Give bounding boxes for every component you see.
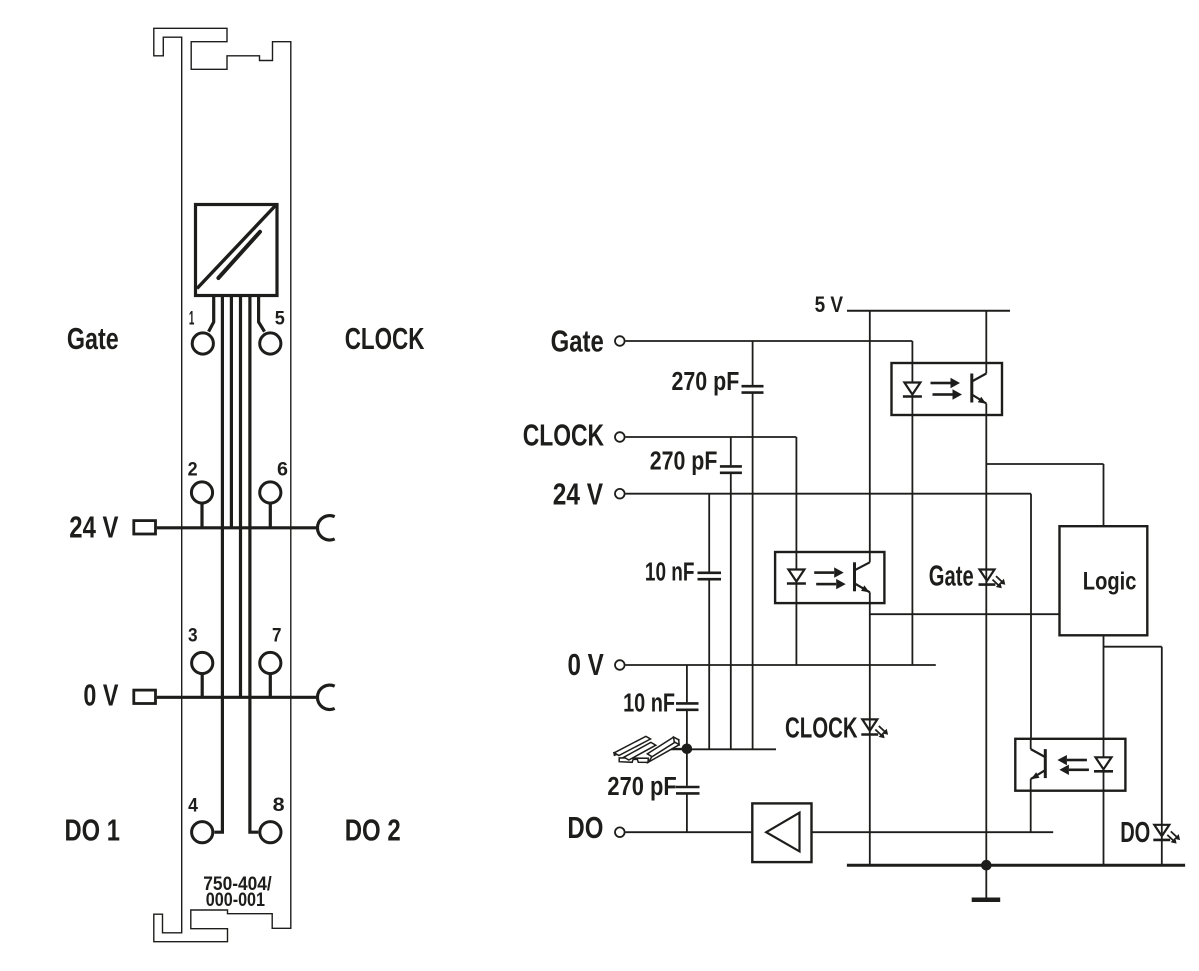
opto U1 transistor [970,374,973,403]
capacitor C1 270pF line [752,341,754,385]
LED indicator Gate [979,570,1006,589]
svg-text:270 pF: 270 pF [672,368,740,396]
0V terminal box [134,690,156,703]
LED indicator DO [1153,825,1180,844]
wire 24V [626,493,1032,495]
5V rail [847,310,1010,312]
node rail junction [682,744,693,755]
ground stub [985,865,987,898]
capacitor C3 bars [698,571,722,574]
amplifier block [752,803,811,862]
0V input terminal [615,660,625,670]
contact 4 circle [192,822,213,843]
power converter square U10 [196,205,278,296]
wire DO to amplifier [626,831,753,833]
Gate input terminal [615,336,625,346]
LED indicator CLOCK [861,719,888,738]
contact 8 circle [260,822,281,843]
wire emitter branch to logic top [986,463,1103,465]
svg-text:Gate: Gate [551,323,604,358]
wire rail symbol to node [664,748,683,750]
converter diagonal [197,206,276,289]
capacitor C4 10nF line [686,665,688,702]
DO input terminal [615,827,625,837]
svg-text:CLOCK: CLOCK [345,321,425,356]
wire Gate to opto U1 LED [911,341,913,364]
svg-text:DO: DO [1120,817,1150,849]
24V input terminal [615,489,625,499]
wire bus to 24V row [230,297,233,528]
opto U3 transistor (mirrored) [1044,749,1047,778]
wire opto U1 LED cathode to 0V [911,415,913,665]
svg-text:CLOCK: CLOCK [785,713,858,745]
contact 2 circle [191,482,212,503]
svg-text:CLOCK: CLOCK [523,418,605,453]
wire CLOCK to opto U2 LED [795,437,797,553]
DIN rail symbol [614,736,679,762]
amplifier triangle [766,813,799,852]
capacitor C4 bars [676,702,699,705]
logic block [1060,526,1148,635]
stub contact 7 to 0V row [269,675,272,698]
opto U1 arrows [931,378,963,400]
opto U2 transistor [853,562,856,591]
svg-text:270 pF: 270 pF [607,773,676,801]
svg-text:4: 4 [188,794,198,816]
capacitor C2 bars [720,465,742,468]
opto U3 LED [1096,757,1112,769]
contact 7 circle [260,652,281,673]
capacitor C5 270pF line [686,749,688,786]
node ground junction [981,860,992,871]
optocoupler U1 box [892,363,1003,415]
opto U2 LED [788,570,804,582]
24V row socket arc [317,516,334,540]
optocoupler U3 box [1015,739,1125,791]
svg-text:3: 3 [188,625,198,647]
svg-text:10 nF: 10 nF [645,559,695,587]
CLOCK input terminal [615,432,625,442]
wire 24V down to opto U3 [1030,494,1032,740]
24V terminal box [134,521,156,534]
wire pin1 from converter [209,297,214,332]
wire shield rail bus [665,748,776,750]
svg-text:DO 1: DO 1 [65,813,120,848]
wire branch to DO LED line [1104,646,1162,648]
contact 5 circle [260,333,281,354]
svg-text:24 V: 24 V [553,476,604,511]
svg-text:0 V: 0 V [83,677,118,712]
svg-text:Logic: Logic [1083,568,1137,596]
wire pin5 from converter [259,297,265,332]
svg-text:Gate: Gate [929,560,974,592]
svg-text:5: 5 [275,308,285,330]
0V row wire [157,696,318,699]
svg-text:0 V: 0 V [568,647,605,682]
wire opto U1 emitter down [985,415,987,865]
opto U1 LED [904,383,920,395]
wire CLOCK [626,436,797,438]
capacitor C1 bars [742,385,764,388]
contact 1 circle [192,333,213,354]
svg-text:7: 7 [272,625,282,647]
svg-text:2: 2 [188,458,198,480]
svg-text:DO 2: DO 2 [345,813,401,848]
converter second diagonal [218,232,260,278]
contact 6 circle [260,482,281,503]
svg-text:24 V: 24 V [69,510,118,545]
24V row wire [157,526,318,529]
wire Gate [626,340,913,342]
ground bar [972,898,1001,903]
svg-text:Gate: Gate [67,321,119,356]
contact 3 circle [192,652,213,673]
wire opto U2 LED cathode to 0V [795,603,797,665]
opto U2 arrows [814,567,846,589]
wire amplifier output [812,831,1054,833]
wire opto U1 collector to 5V [985,311,987,363]
wire opto U3 LED anode from logic [1103,635,1105,739]
wire bus to DO2 contact 8 [250,297,258,832]
svg-text:DO: DO [567,810,603,845]
wire opto U3 LED cathode to ground [1103,791,1105,866]
wire opto U2 emitter down to ground [869,603,871,865]
svg-text:5 V: 5 V [815,292,844,317]
wire emitter branch line A to logic left [870,613,1060,615]
capacitor C3 10nF line [708,494,710,572]
capacitor C2 270pF line [730,437,732,465]
wire 0V [626,664,936,666]
ground bus line [847,864,1185,867]
svg-text:6: 6 [277,458,288,480]
svg-text:1: 1 [189,307,195,329]
wire opto U2 collector to 5V [869,311,871,552]
wire bus to DO1 contact 4 [214,297,222,832]
0V row socket arc [317,685,334,709]
wire opto U3 emitter to DO wire [1030,791,1032,833]
svg-text:10 nF: 10 nF [623,690,675,718]
stub contact 3 to 0V row [201,675,204,698]
optocoupler U2 box [775,552,884,603]
stub contact 6 to 24V row [269,504,272,528]
svg-text:000-001: 000-001 [206,889,265,911]
svg-text:8: 8 [273,794,285,816]
opto U3 arrows (pointing left) [1057,755,1089,775]
wire bus to 0V row [239,297,242,697]
capacitor C5 bars [676,786,700,789]
module outline 750-404 bus terminal [154,28,291,941]
svg-text:270 pF: 270 pF [650,448,718,476]
stub contact 2 to 24V row [200,504,203,528]
